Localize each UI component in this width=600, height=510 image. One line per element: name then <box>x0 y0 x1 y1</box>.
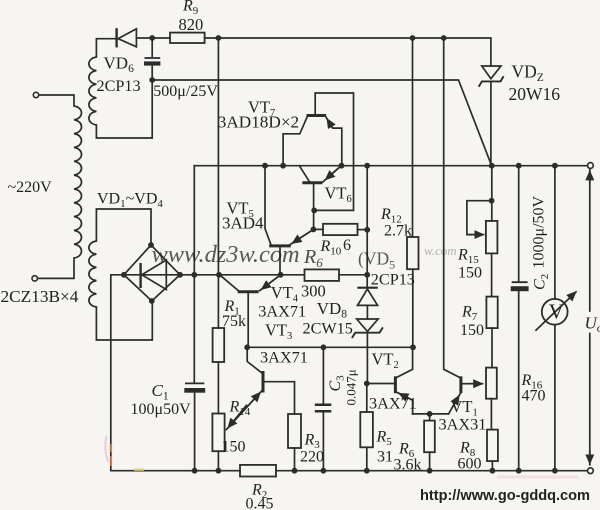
svg-text:3AX71: 3AX71 <box>260 348 308 367</box>
svg-text:3AX31: 3AX31 <box>439 415 487 434</box>
svg-text:1000μ/50V: 1000μ/50V <box>531 195 548 268</box>
svg-text:150: 150 <box>458 265 482 282</box>
svg-text:V: V <box>549 300 564 324</box>
svg-text:6: 6 <box>343 237 351 254</box>
svg-text:75k: 75k <box>222 313 246 330</box>
svg-text:31: 31 <box>377 449 393 466</box>
svg-text:http://www.go-gddq.com: http://www.go-gddq.com <box>420 488 590 504</box>
svg-text:2CP13: 2CP13 <box>371 271 415 289</box>
svg-text:600: 600 <box>458 456 482 473</box>
svg-text:820: 820 <box>179 15 204 34</box>
svg-text:2CW15: 2CW15 <box>303 320 353 338</box>
svg-text:0.45: 0.45 <box>246 496 274 510</box>
svg-text:20W16: 20W16 <box>509 84 561 104</box>
svg-text:3AD4: 3AD4 <box>222 214 264 233</box>
svg-text:~220V: ~220V <box>8 179 53 196</box>
svg-text:w.com: w.com <box>424 243 457 258</box>
svg-text:220: 220 <box>300 449 324 466</box>
svg-text:0.047μ: 0.047μ <box>344 369 359 405</box>
svg-text:3AD18D×2: 3AD18D×2 <box>218 113 299 132</box>
svg-text:2CZ13B×4: 2CZ13B×4 <box>1 287 79 306</box>
svg-text:VD1~VD4: VD1~VD4 <box>97 191 163 211</box>
svg-text:150: 150 <box>222 439 246 456</box>
svg-text:3.6k: 3.6k <box>394 457 422 474</box>
svg-text:100μ50V: 100μ50V <box>131 401 192 418</box>
svg-text:150: 150 <box>460 322 484 339</box>
svg-text:500μ/25V: 500μ/25V <box>153 83 218 100</box>
svg-text:2.7k: 2.7k <box>384 223 412 240</box>
svg-text:3AX71: 3AX71 <box>258 301 306 320</box>
svg-text:300: 300 <box>301 282 326 301</box>
svg-text:470: 470 <box>522 388 546 405</box>
svg-text:3AX71: 3AX71 <box>369 394 417 413</box>
svg-text:www.dz3w.com: www.dz3w.com <box>152 241 300 268</box>
svg-text:2CP13: 2CP13 <box>97 77 141 95</box>
